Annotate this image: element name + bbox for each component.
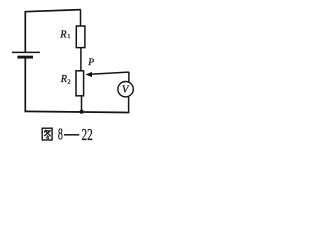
wire voltmeter bottom lead — [128, 97, 130, 113]
svg-text:2: 2 — [67, 78, 70, 85]
svg-text:22: 22 — [82, 125, 93, 144]
wire bottom — [25, 111, 130, 112]
caption hanzi TU (figure) — [42, 128, 52, 140]
resistor R1 — [76, 26, 85, 48]
caption dash — [64, 134, 79, 136]
battery positive plate — [12, 51, 40, 53]
junction node dot — [80, 110, 84, 114]
wire voltmeter top lead — [128, 72, 130, 82]
wire R2 bottom lead — [81, 96, 83, 112]
svg-text:R: R — [59, 29, 67, 40]
voltmeter V circle — [118, 82, 133, 97]
svg-text:1: 1 — [67, 33, 70, 40]
wire R1 to R2 — [80, 48, 82, 72]
wire left lower — [24, 57, 26, 112]
battery negative plate — [17, 56, 33, 59]
wire R1 top lead — [80, 10, 82, 27]
wire left upper — [24, 11, 26, 53]
resistor R2 (potentiometer track) — [76, 71, 84, 96]
wiper arrow shaft of R2 — [91, 72, 129, 74]
svg-text:8: 8 — [58, 125, 63, 144]
wiper arrowhead — [86, 72, 93, 77]
wire top — [25, 10, 81, 12]
svg-text:P: P — [87, 58, 94, 68]
